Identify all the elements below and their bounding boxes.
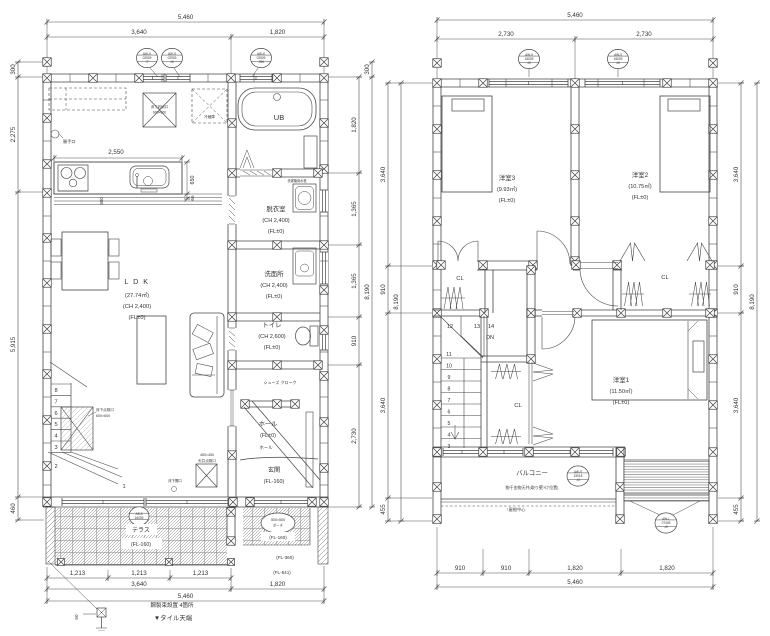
svg-text:5,460: 5,460 — [178, 14, 194, 21]
louver callout — [655, 513, 677, 533]
svg-text:シューズ クローク: シューズ クローク — [264, 379, 297, 385]
terrace callout — [129, 507, 149, 525]
2F outer wall top — [433, 78, 717, 80]
svg-text:1,820: 1,820 — [270, 29, 286, 36]
svg-text:50: 50 — [74, 614, 79, 620]
2F left dimension chain 3,640/910/3,640/455 — [387, 83, 389, 521]
svg-text:ﾆ7: ﾆ7 — [145, 60, 149, 64]
svg-text:2,730: 2,730 — [498, 31, 514, 38]
1F outer wall left — [42, 74, 44, 507]
svg-text:11: 11 — [446, 352, 451, 358]
svg-text:1,820: 1,820 — [270, 581, 286, 588]
svg-text:65: 65 — [190, 195, 195, 201]
bedroom3 bed — [442, 96, 492, 192]
svg-text:10: 10 — [446, 364, 452, 370]
svg-text:7: 7 — [448, 398, 451, 404]
bedroom1 door — [541, 317, 543, 349]
svg-text:洋室3: 洋室3 — [499, 173, 516, 182]
svg-text:CL: CL — [514, 403, 522, 409]
svg-text:勝手口: 勝手口 — [63, 138, 76, 145]
svg-text:1,820: 1,820 — [659, 565, 675, 572]
svg-text:2,550: 2,550 — [108, 149, 124, 156]
bath south wall — [236, 168, 320, 170]
svg-text:(FL±0): (FL±0) — [266, 294, 283, 300]
svg-text:1: 1 — [122, 484, 125, 490]
svg-text:(CH 2,600): (CH 2,600) — [258, 334, 285, 340]
svg-text:洗面所: 洗面所 — [264, 269, 284, 278]
svg-text:455: 455 — [380, 504, 387, 515]
svg-text:13: 13 — [474, 324, 480, 330]
2F main south wall — [433, 446, 625, 448]
svg-text:5,460: 5,460 — [567, 12, 583, 19]
svg-text:ポーチ: ポーチ — [273, 523, 284, 528]
svg-text:5,460: 5,460 — [567, 579, 583, 586]
svg-text:3,640: 3,640 — [733, 397, 740, 413]
svg-text:650: 650 — [190, 176, 196, 185]
1F bottom dims 1,213 x3 — [47, 577, 231, 579]
2F top dimension 2,730/2,730 — [437, 38, 713, 40]
toilet door — [227, 328, 237, 350]
stair hall top wall — [433, 309, 486, 311]
hall opening — [227, 390, 237, 426]
svg-text:3,640: 3,640 — [733, 166, 740, 182]
bedroom3 closet double doors — [438, 241, 478, 261]
svg-text:(CH 2,400): (CH 2,400) — [123, 304, 151, 310]
1F wall stud ticks — [43, 99, 51, 101]
svg-text:4: 4 — [54, 434, 57, 440]
washroom vanity — [293, 248, 316, 284]
svg-text:8: 8 — [448, 387, 451, 393]
svg-text:床下収納口: 床下収納口 — [151, 104, 168, 109]
svg-text:(CH 2,400): (CH 2,400) — [260, 283, 287, 289]
1F left dimension chain 300/2,275/5,915/460 — [17, 62, 19, 520]
svg-text:L D K: L D K — [124, 277, 149, 286]
east posts — [708, 457, 710, 524]
svg-text:ホール: ホール — [259, 445, 273, 450]
svg-text:(9.93㎡): (9.93㎡) — [497, 185, 517, 193]
svg-text:テラス: テラス — [132, 527, 150, 534]
1F right overall dimension 300 / 8,190 — [371, 62, 373, 507]
terrace side piers — [46, 507, 55, 564]
2F middle wall between bedrooms — [570, 87, 572, 261]
1F top dimension line 3,640 / 1,820 — [47, 36, 324, 38]
svg-text:洗濯機用水栓: 洗濯機用水栓 — [287, 178, 307, 183]
2F south wall balcony doors — [443, 449, 481, 451]
svg-text:3: 3 — [448, 444, 451, 450]
svg-text:8: 8 — [54, 388, 57, 394]
cooktop — [58, 165, 88, 191]
balcony west wall — [432, 457, 434, 524]
svg-text:鋼製束設置 4箇所: 鋼製束設置 4箇所 — [150, 601, 194, 609]
svg-text:(FL±0): (FL±0) — [613, 400, 630, 406]
floor access hatch — [61, 407, 93, 450]
svg-text:(FL-541): (FL-541) — [273, 570, 291, 575]
svg-text:3,640: 3,640 — [131, 29, 147, 36]
corridor-closet wall — [526, 270, 528, 356]
dressing/washroom wall — [236, 240, 320, 242]
2F wall columns — [433, 79, 442, 88]
washroom/toilet wall — [236, 312, 320, 314]
1F interior wall vertical (LDK side) — [227, 82, 229, 497]
dressing room door — [227, 196, 237, 224]
2F outer wall right — [708, 79, 710, 457]
svg-text:(11.50㎡): (11.50㎡) — [610, 387, 633, 395]
1F bottom dims 3,640 / 1,820 — [47, 588, 324, 590]
toilet fixture — [310, 326, 318, 346]
porch west wall — [226, 507, 228, 545]
2F bottom dims 910/910/1,820/1,820 — [437, 572, 713, 574]
svg-text:トイレ: トイレ — [262, 322, 281, 329]
svg-text:天井点検口: 天井点検口 — [198, 458, 216, 463]
svg-text:12: 12 — [447, 324, 453, 330]
service door circle — [51, 130, 59, 138]
kitchen counter dim 650/65 — [186, 162, 188, 199]
svg-text:6: 6 — [448, 410, 451, 416]
bedroom3 door — [536, 231, 538, 264]
svg-text:1,213: 1,213 — [193, 570, 209, 577]
svg-text:910: 910 — [380, 284, 387, 295]
1F top window callouts — [137, 48, 158, 67]
bedroom2 closet folding doors — [620, 243, 633, 261]
toilet south wall — [236, 360, 320, 362]
closet CL (bedroom1) — [481, 355, 535, 357]
bath door (in south wall) — [240, 168, 272, 178]
svg-text:洋室2: 洋室2 — [632, 170, 649, 179]
svg-text:±0: ±0 — [527, 61, 531, 65]
sofa — [190, 313, 224, 397]
svg-text:1,820: 1,820 — [567, 565, 583, 572]
refrigerator (dashed box) — [192, 89, 227, 123]
1F right dimension chain 1,820/1,365/1,365/910/2,730 — [358, 77, 360, 507]
2F outer wall left — [432, 79, 434, 457]
svg-text:600×600: 600×600 — [96, 414, 110, 418]
svg-text:450×450: 450×450 — [200, 453, 214, 457]
svg-text:9: 9 — [448, 375, 451, 381]
svg-text:8,190: 8,190 — [364, 284, 371, 300]
svg-text:300: 300 — [364, 64, 371, 75]
svg-text:▼タイル天端: ▼タイル天端 — [154, 613, 193, 622]
ceiling access hatch 450x450 — [196, 464, 217, 487]
2F top window callouts — [519, 49, 540, 68]
svg-text:300: 300 — [10, 64, 17, 75]
svg-text:1,365: 1,365 — [351, 273, 358, 289]
svg-text:(FL±0): (FL±0) — [268, 229, 285, 235]
svg-text:300: 300 — [99, 197, 104, 205]
svg-text:3,640: 3,640 — [131, 581, 147, 588]
svg-text:バルコニー: バルコニー — [516, 469, 548, 477]
svg-text:5: 5 — [54, 422, 57, 428]
1F staircase — [50, 362, 87, 387]
svg-text:UB: UB — [274, 113, 284, 122]
1F bottom wall terrace sliding doors — [62, 499, 144, 501]
terrace steel posts — [58, 559, 65, 566]
svg-text:1,213: 1,213 — [70, 570, 86, 577]
entrance step line — [240, 457, 318, 460]
svg-text:1,365: 1,365 — [351, 201, 358, 217]
stair winders — [441, 317, 483, 358]
svg-text:玄関: 玄関 — [268, 466, 280, 474]
closet CL bedroom3 — [484, 270, 486, 313]
svg-text:460: 460 — [10, 503, 17, 514]
svg-text:910: 910 — [455, 565, 466, 572]
svg-text:910: 910 — [501, 565, 512, 572]
louver base lines — [624, 493, 709, 495]
living table — [137, 316, 166, 384]
dressing room washer — [293, 184, 316, 212]
svg-text:1,820: 1,820 — [351, 117, 358, 133]
svg-text:2,730: 2,730 — [636, 31, 652, 38]
svg-text:910: 910 — [733, 284, 740, 295]
dining chairs — [51, 239, 61, 256]
svg-text:±0: ±0 — [576, 478, 580, 482]
svg-text:3,640: 3,640 — [380, 166, 387, 182]
roof center dashed line — [441, 505, 616, 507]
louver screen — [624, 460, 709, 501]
svg-text:2,730: 2,730 — [351, 428, 358, 444]
2F bottom dim 5,460 — [437, 586, 713, 588]
2F top dimension 5,460 — [437, 19, 713, 21]
terrace hatch — [55, 508, 227, 565]
2F corridor south wall — [527, 309, 542, 311]
svg-text:CL: CL — [661, 275, 669, 281]
svg-text:(27.74㎡): (27.74㎡) — [125, 291, 149, 299]
2F wall stud ticks — [433, 105, 441, 107]
2F top wall windows — [489, 80, 568, 82]
svg-text:ホール: ホール — [259, 421, 278, 428]
svg-text:(CH 2,400): (CH 2,400) — [262, 218, 289, 224]
unit bath tub — [238, 88, 316, 130]
svg-text:(FL±0): (FL±0) — [632, 195, 649, 201]
balcony rail — [441, 498, 616, 500]
svg-text:±0: ±0 — [616, 61, 620, 65]
1F bottom dim 5,460 — [47, 600, 324, 602]
1F outer wall bottom — [43, 496, 328, 498]
svg-text:洋室1: 洋室1 — [613, 375, 630, 384]
bath counter — [304, 136, 317, 168]
svg-text:2: 2 — [54, 464, 57, 470]
svg-text:±0: ±0 — [664, 525, 668, 529]
svg-text:(FL±0): (FL±0) — [264, 345, 281, 351]
svg-text:(FL±0): (FL±0) — [260, 433, 276, 439]
svg-text:5,460: 5,460 — [178, 593, 194, 600]
terrace label — [126, 524, 157, 535]
kitchen counter — [54, 162, 182, 194]
svg-text:3: 3 — [54, 445, 57, 451]
shower symbol — [240, 150, 254, 168]
balcony east wall — [615, 447, 617, 524]
svg-text:6: 6 — [54, 411, 57, 417]
stair turn wedge — [48, 452, 118, 484]
svg-text:5: 5 — [448, 421, 451, 427]
2F staircase — [480, 316, 482, 448]
1F wall columns — [43, 74, 52, 83]
svg-text:600×600: 600×600 — [153, 111, 166, 115]
svg-text:2,275: 2,275 — [10, 126, 17, 142]
svg-text:910: 910 — [351, 335, 358, 346]
svg-text:DN: DN — [486, 335, 494, 341]
svg-text:500×500: 500×500 — [271, 518, 285, 522]
bedroom2 bed — [660, 96, 710, 192]
entrance shoe cabinet — [306, 412, 313, 487]
svg-text:(10.75㎡): (10.75㎡) — [628, 182, 651, 190]
2F right dimension chain 3,640/910/3,640/455 — [740, 83, 742, 521]
kitchen sink — [130, 166, 169, 188]
svg-text:CL: CL — [456, 276, 464, 282]
svg-text:(FL-160): (FL-160) — [269, 535, 287, 540]
svg-text:(FL±0): (FL±0) — [499, 198, 516, 204]
corridor-CL2 wall — [612, 270, 614, 310]
porch circle — [261, 513, 295, 533]
svg-text:8,190: 8,190 — [749, 294, 756, 310]
svg-text:4: 4 — [448, 433, 451, 439]
under-stair diagonal (hall) — [244, 407, 313, 488]
1F outer wall right — [319, 74, 321, 507]
svg-text:↑屋根中心: ↑屋根中心 — [507, 506, 527, 513]
svg-text:3,640: 3,640 — [380, 397, 387, 413]
svg-text:8,190: 8,190 — [393, 294, 400, 310]
balcony window callout — [567, 466, 589, 486]
dining table — [62, 232, 108, 290]
bedroom2 door arc — [580, 270, 618, 306]
svg-text:床下点検口: 床下点検口 — [96, 407, 114, 412]
svg-text:14: 14 — [488, 324, 494, 330]
svg-text:(FL-160): (FL-160) — [264, 479, 285, 485]
2F bedroom south wall — [477, 260, 537, 262]
svg-text:±0: ±0 — [170, 60, 174, 64]
svg-text:(FL-360): (FL-360) — [276, 555, 294, 560]
shoes cloak wall — [242, 400, 297, 402]
svg-text:7: 7 — [54, 399, 57, 405]
1F top wall windows — [141, 75, 164, 77]
1F outer wall top — [43, 73, 328, 75]
svg-text:脱衣室: 脱衣室 — [266, 204, 286, 213]
floor storage box — [143, 93, 176, 127]
1F top dimension line 5,460 — [47, 21, 324, 23]
svg-text:(FL-160): (FL-160) — [131, 542, 151, 548]
svg-text:5,915: 5,915 — [10, 336, 17, 352]
2F right overall 8,190 — [756, 83, 758, 521]
bedroom1 bed — [592, 320, 707, 400]
kitchen hanging cabinet (dashed) — [49, 88, 126, 110]
1F right wall windows — [320, 190, 328, 212]
kitchen counter dim 2,550 — [54, 157, 182, 159]
steel post symbol — [97, 608, 106, 617]
svg-text:455: 455 — [733, 504, 740, 515]
2F left overall 8,190 — [400, 83, 402, 521]
counter front lines — [54, 193, 222, 195]
svg-text:物干金物天井(取り堅?け位置): 物干金物天井(取り堅?け位置) — [506, 484, 560, 490]
svg-text:冷蔵庫: 冷蔵庫 — [204, 114, 215, 119]
svg-text:1,213: 1,213 — [131, 570, 147, 577]
svg-text:-390: -390 — [258, 60, 265, 64]
1F entrance door — [254, 499, 308, 501]
svg-text:床下開口: 床下開口 — [168, 478, 182, 483]
